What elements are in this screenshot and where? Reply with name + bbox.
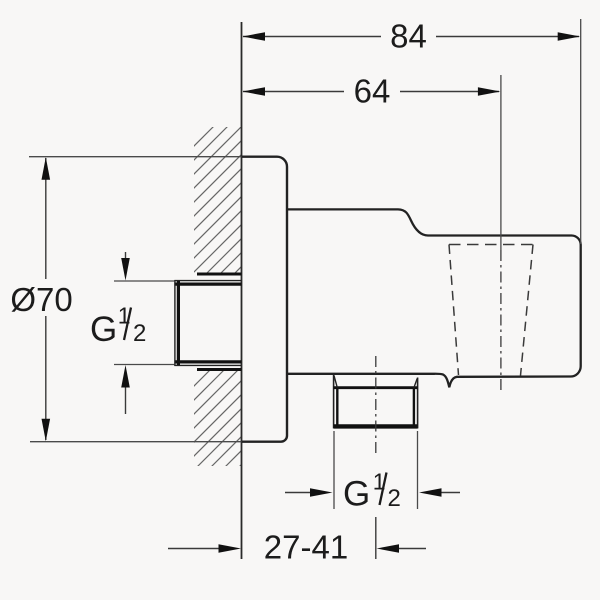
wall hole top edge [197,273,242,276]
dim 84 extension line right [580,19,582,244]
wall hole bottom edge [197,368,242,371]
inlet thread dim extension bottom [114,364,175,366]
body outline (arm + holder) [287,209,581,387]
svg-text:G: G [343,475,370,514]
dim 64 extension line right [500,75,502,250]
svg-text:27-41: 27-41 [264,529,348,566]
dim d70 extension top [29,156,242,158]
escutcheon flange [242,157,288,442]
G 1/2 label left [90,303,146,349]
inlet pipe G1/2 stub in wall [174,280,241,366]
dim 64 arrow right [478,87,501,96]
dim 64 line [243,91,499,93]
holder cone centerline (dash-dot) [500,250,502,392]
holder cone hidden edge left (dashed) [449,245,459,376]
inlet dim arrow down [125,252,127,262]
dim 64 arrow left [243,87,266,96]
dim d70 extension bottom [30,441,242,443]
inlet thread dim extension top [114,280,175,282]
outlet centerline extension to 27-41 [375,517,377,559]
holder cone hidden edge right (dashed) [521,245,534,376]
G 1/2 dim bottom arrow left [285,492,311,494]
dim d70 line [45,158,47,440]
dim d70 arrow down [42,419,51,442]
G 1/2 dim bottom arrow right [441,492,460,494]
G 1/2 label bottom [343,469,401,514]
wall hatching upper band [150,50,290,386]
dim d70 arrow up [42,157,51,180]
wall face line [241,22,243,559]
dim 84 arrow left [243,32,266,41]
holder cone hidden rim (dashed) [449,244,533,246]
dim 27-41 arrow left [168,548,220,550]
outlet pipe stub [334,374,418,428]
svg-text:64: 64 [354,73,391,110]
dim 84 line [243,36,579,38]
inlet dim arrow up [125,386,127,414]
wall hatching lower band [150,290,290,570]
outlet centerline (dash-dot) [375,356,377,456]
svg-text:Ø70: Ø70 [10,281,72,318]
svg-text:G: G [90,310,117,349]
svg-text:84: 84 [390,18,427,55]
dim 84 arrow right [558,32,581,41]
G 1/2 dim bottom: extension lines [333,431,335,509]
dim 27-41 arrow right [398,548,426,550]
svg-text:2: 2 [133,320,146,347]
svg-text:2: 2 [388,485,401,512]
